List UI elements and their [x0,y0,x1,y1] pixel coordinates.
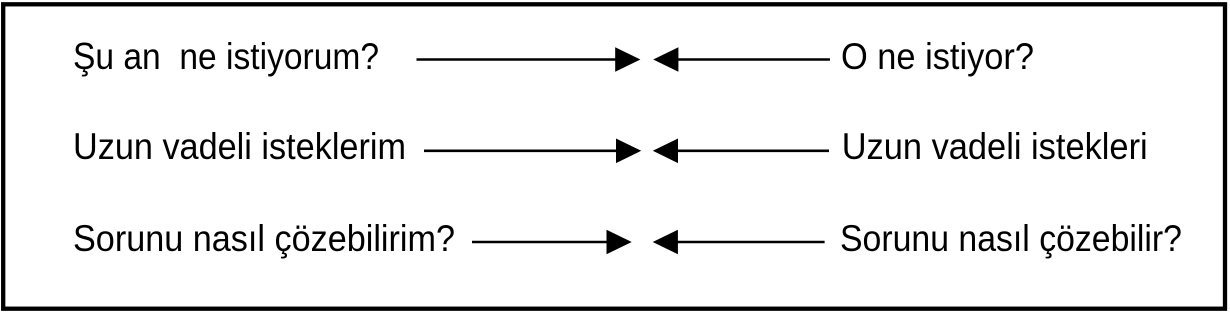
arrowhead row1 right (points left) [653,47,678,72]
arrowhead row1 left (points right) [615,47,640,72]
svg-text:Şu an ne istiyorum?: Şu an ne istiyorum? [73,35,379,77]
svg-text:O ne istiyor?: O ne istiyor? [841,35,1034,77]
wire row2 right arrow shaft [675,150,829,153]
wire row3 left arrow shaft [472,241,609,244]
arrowhead row2 right (points left) [653,139,678,164]
svg-text:Sorunu nasıl çözebilir?: Sorunu nasıl çözebilir? [840,217,1182,259]
wire row1 right arrow shaft [676,58,830,61]
svg-text:Uzun vadeli isteklerim: Uzun vadeli isteklerim [73,125,406,167]
wire row1 left arrow shaft [417,58,619,61]
svg-text:Sorunu nasıl çözebilirim?: Sorunu nasıl çözebilirim? [73,217,455,259]
arrowhead row3 left (points right) [607,230,632,255]
wire row3 right arrow shaft [675,241,825,244]
wire row2 left arrow shaft [424,150,619,153]
svg-text:Uzun vadeli istekleri: Uzun vadeli istekleri [842,125,1148,167]
arrowhead row2 left (points right) [616,139,641,164]
arrowhead row3 right (points left) [653,230,678,255]
